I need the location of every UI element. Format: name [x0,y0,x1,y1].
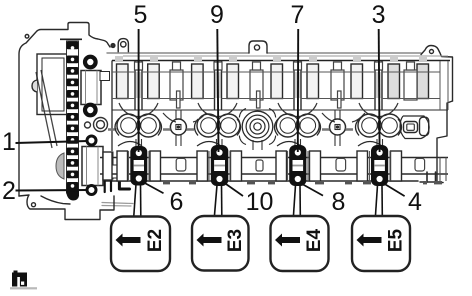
top hatch band [123,55,448,57]
chain guide rect [32,54,68,115]
svg-text:5: 5 [134,1,148,29]
central boss [239,109,275,145]
double circle left [85,118,108,132]
bottom edge under cam row [102,180,418,182]
right end hump with hole [421,46,453,102]
engine outline [19,23,453,220]
exhaust cam row [100,151,448,184]
cylinder 3 valve bores [276,114,319,137]
pointer lines cap C to E4 box [294,185,301,215]
leader line 3 [378,29,381,152]
lobes flanking caps [117,151,128,181]
scallop arcs under intake row [119,103,398,122]
pointer lines cap B to E3 box [215,185,222,215]
leader line 8 [303,185,323,196]
timing chain [66,41,79,201]
E4 box [271,216,329,271]
front cap area blocks [81,71,118,186]
svg-text:2: 2 [2,177,16,205]
corner screw hole [25,35,29,39]
svg-text:6: 6 [170,188,184,216]
leader line 6 [144,183,164,194]
bracket below shaft left [104,181,106,192]
repeating lobes and journals [136,72,381,98]
sprocket bump left of chain [56,153,64,179]
leader line 10 [225,183,244,196]
pointer lines cap A to E2 box [134,184,141,216]
svg-text:E2: E2 [145,229,166,252]
cylinder 1 valve bores [117,114,160,137]
big bolts left [85,57,96,116]
bottom tabs under bottom edge [163,181,442,184]
intake cam row [112,61,448,152]
svg-text:10: 10 [246,188,274,216]
svg-text:1: 1 [2,128,16,156]
connector verticals at bones [136,110,383,150]
E5 box [352,216,410,271]
leader line 2 [16,189,89,192]
left end arc [115,119,119,136]
tab with hole center [249,41,267,53]
bay horizontals [112,71,440,73]
svg-text:7: 7 [291,1,305,29]
long top edge [107,52,249,54]
leader line 9 [217,29,218,152]
bearing cap B [212,146,228,185]
bone connectors [108,119,353,135]
left diagonal lines [36,70,57,148]
svg-text:E3: E3 [225,229,246,252]
shaft band [100,158,448,175]
E3 box [192,216,249,271]
bearing cap D [372,146,387,185]
E2 box [111,217,170,272]
bolt ring pointed by 1 [87,136,96,145]
journal verticals [141,61,143,110]
center bosses between lobes [170,70,183,100]
bearing cap C [290,146,305,185]
svg-text:E4: E4 [304,228,325,252]
cylinder 2 valve bores [197,114,240,137]
pointer lines cap D to E5 box [376,185,383,215]
bolt ring pointed by 2 [87,186,96,195]
tab with hole left [118,39,128,53]
svg-text:E5: E5 [386,228,407,252]
scallops below circles [118,142,142,147]
chain housing top edge [60,38,82,40]
bottom-left outline [19,195,114,220]
leader line 7 [297,29,299,152]
leader line 5 [138,29,140,152]
svg-text:9: 9 [210,1,224,29]
right edge steps [420,101,453,182]
right side ring + oval [400,116,429,139]
cylinder 4 valve bores [358,114,401,137]
leader line 1 [16,141,89,143]
svg-text:3: 3 [372,1,386,29]
leader line 4 [385,184,405,196]
svg-text:8: 8 [331,188,345,216]
bearing cap A [131,147,146,185]
journal edge verticals beside caps [129,151,150,181]
circles row [108,103,429,150]
svg-text:4: 4 [408,188,422,216]
logo mark bottom-left [10,271,37,290]
small gray squares on top edge [115,56,123,61]
lobes: tall rects [117,64,129,99]
